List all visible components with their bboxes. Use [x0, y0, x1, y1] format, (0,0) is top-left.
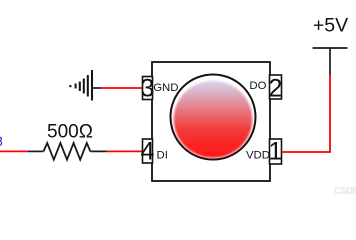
svg-text:+5V: +5V: [313, 14, 348, 36]
svg-text:VDD: VDD: [246, 150, 270, 162]
svg-text:8: 8: [0, 133, 3, 149]
wire +5V black drop: [329, 48, 331, 75]
wire gnd stub: [92, 87, 101, 89]
svg-text:2: 2: [269, 74, 283, 102]
pin 3 tab: [143, 77, 153, 100]
ground: [70, 70, 92, 101]
LED lens outline: [171, 75, 256, 160]
watermark: [334, 186, 356, 197]
svg-text:GND: GND: [153, 82, 178, 94]
wire gnd to pin 3: [101, 87, 143, 89]
pin 2 tab: [270, 75, 282, 99]
svg-text:DO: DO: [249, 80, 266, 92]
resistor lead left: [28, 150, 44, 152]
svg-text:DI: DI: [157, 149, 168, 161]
svg-text:1: 1: [269, 138, 283, 166]
LED U1 package body: [152, 62, 270, 181]
resistor lead right: [90, 150, 106, 152]
pin 4 tab: [143, 139, 153, 163]
wire net8 to resistor: [0, 150, 28, 152]
svg-text:4: 4: [141, 138, 155, 166]
pin 1 tab: [270, 139, 282, 164]
LED ball gradient: [174, 81, 253, 158]
resistor zigzag: [44, 143, 91, 160]
wire +5V red drop: [282, 75, 331, 152]
wire resistor to pin 4: [107, 150, 143, 152]
power +5V bar: [313, 47, 348, 49]
svg-text:500Ω: 500Ω: [47, 122, 93, 143]
